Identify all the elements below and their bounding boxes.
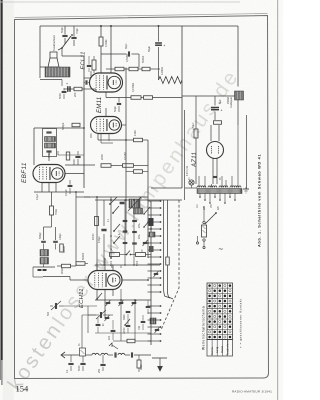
wire caps to coils (43, 244, 45, 250)
resistor x74 y125 (72, 123, 80, 127)
wire right rail x246.5 (246, 115, 248, 189)
variable capacitor C tune2 (99, 312, 101, 318)
wire ECH11 bottom pins (96, 290, 98, 301)
capacitor x70 y186 (68, 184, 73, 186)
resistor row y254 b (136, 253, 146, 257)
wire feldspule x238 (237, 26, 239, 87)
power transformer Tr1 core (197, 189, 242, 194)
capacitor 5000 x78 y157 (75, 155, 80, 157)
capacitor small x89 (87, 64, 91, 66)
switch contact finger y236 (148, 235, 161, 237)
wire x125 vertical osc (124, 200, 126, 265)
trimmer y243 c (143, 241, 147, 243)
wire B+ rail left drop (39, 26, 41, 78)
IF2 primary coil (40, 250, 49, 257)
voltage selector arm (205, 213, 216, 224)
capacitor below IF2 b (43, 269, 47, 271)
wire osc bottom h (95, 332, 151, 334)
capacitor y330 b (111, 329, 116, 331)
resistor right of IF2 coils (60, 244, 64, 252)
wire fuse up (203, 206, 205, 221)
capacitor x71 (68, 362, 73, 364)
wire y300 osc row (95, 299, 151, 301)
wire x135 vertical low (134, 300, 136, 341)
wire EM11 cathode down (90, 134, 92, 139)
resistor row y165 r2 (123, 164, 134, 168)
capacitor 50pF tonabnehmer (62, 34, 67, 36)
resistor x196 (194, 129, 198, 138)
dashed mechanical link (161, 200, 179, 330)
wire B+ rail drop x182 (181, 26, 183, 188)
wire antenna 3 (108, 354, 113, 356)
switch contacts ab (126, 254, 128, 256)
junction dots osc (110, 257, 112, 259)
trimmer on comb (154, 272, 158, 274)
wire tune2 (88, 314, 99, 316)
wire x88 vertical (87, 306, 89, 333)
capacitor left of ECL11 (85, 80, 87, 84)
wire EM11 bottom to grid line (97, 134, 99, 141)
wire y165 row right (111, 165, 123, 167)
wire x97 vertical osc (96, 197, 98, 271)
transformer top leads (198, 176, 200, 188)
wire cathode row (64, 88, 74, 90)
capacitor y231 a (123, 230, 128, 232)
switch contact finger y222 (148, 221, 161, 223)
resistor 300 right of IF2 (62, 264, 71, 268)
coil block on comb 2 (150, 318, 156, 324)
wire y341 (113, 340, 127, 342)
wire EBF11 anode right (65, 173, 84, 175)
capacitor y221 b (132, 219, 137, 221)
transformer tap leads (199, 194, 201, 198)
capacitor 470pF (101, 228, 106, 230)
wire IF1 to EBF11 (48, 151, 50, 161)
capacitor y326 (126, 324, 131, 326)
wire x134 vertical osc (133, 200, 135, 265)
table label area (207, 340, 233, 357)
switch contact finger y285 (148, 284, 161, 286)
dial lamp (189, 180, 194, 185)
resistor 1M EM11 grid (134, 138, 143, 142)
resistor 0.3M grid ECL11 (99, 37, 103, 46)
resistor x96 vertical (95, 217, 99, 226)
scan noise overlay (0, 0, 1, 1)
switch contact finger y201 (148, 200, 161, 202)
wire x104 vertical osc (103, 200, 105, 226)
wire x51.5 lower (51, 215, 53, 227)
variable coil arrow (128, 197, 141, 211)
page scan left gutter edge (1, 0, 3, 360)
wire x121 vertical low (120, 289, 122, 341)
wire x246 to AZ (224, 149, 247, 151)
speaker LS (48, 52, 59, 67)
resistor 200 cathode ECL11 (74, 87, 82, 91)
tube ECL11 (90, 73, 123, 92)
wire y128 link (58, 127, 84, 129)
IF1 secondary coil (45, 143, 56, 148)
capacitor 5000 ECL11 left (62, 90, 67, 92)
wire x111 vertical osc (110, 197, 112, 258)
wire x196 vertical (195, 96, 197, 129)
wire AZ plate top (210, 125, 212, 141)
tube AZ11 (207, 142, 224, 159)
ground arrow bottom (152, 357, 167, 359)
antenna arrow (61, 352, 65, 358)
table cell marks (208, 284, 211, 287)
figure frame border (15, 16, 269, 379)
wire y306 (64, 305, 97, 307)
earth arrow (109, 343, 112, 347)
wire B+ top rail (40, 25, 238, 27)
capacitor 30pF coupling (101, 53, 127, 55)
trimmer y318 (105, 316, 110, 318)
power transformer Tr1 windings (197, 186, 241, 188)
capacitor antenna shunt 2 (100, 363, 105, 365)
resistor x219 y122 (214, 121, 222, 125)
wire IF1 top (34, 127, 58, 129)
switch lever y240 (114, 236, 120, 243)
switch S5 Tonabnehmer (58, 34, 73, 50)
wire ECH11 top pins (96, 262, 98, 271)
capacitor y243 a (123, 241, 128, 243)
electrolytic 8uF (211, 107, 219, 109)
resistor 700 x55 (50, 206, 54, 215)
resistor on rail B (166, 257, 170, 265)
switch contact finger y250 (148, 249, 161, 251)
tube EM11 (91, 117, 122, 134)
wire EM11 anode (122, 124, 127, 126)
wire y171 (126, 171, 134, 173)
wire y165 row (65, 164, 95, 166)
switch contact finger y243 (148, 242, 161, 244)
resistor 40000 above ECL11 (92, 60, 96, 70)
small resistor y340 (127, 339, 135, 343)
wire IF2 bottom (43, 276, 70, 278)
junction dot rail (100, 25, 102, 27)
wire below output transformer (40, 79, 62, 81)
resistor row y97 r1 (131, 96, 141, 100)
capacitor y231 b (132, 230, 137, 232)
switch contact finger y229 (148, 228, 161, 230)
switch wiper blocks (149, 218, 154, 226)
resistor chain y67 r1 (115, 67, 124, 71)
capacitor antenna series 2 (130, 352, 132, 357)
trimmer y303 c (132, 301, 137, 303)
wire speaker to rail (40, 66, 47, 68)
capacitor y307 d (146, 305, 151, 307)
wire x76 down (75, 192, 77, 262)
antenna trimmer box (80, 348, 86, 356)
band switch spine (150, 201, 152, 298)
switch contact finger y271 (148, 270, 161, 272)
wire y192 bus (34, 191, 84, 193)
tube EBF11 (33, 165, 65, 183)
wire ECH11 left (70, 279, 88, 281)
wire y266 to ECH11 (57, 265, 62, 267)
capacitor below IF2 a (38, 269, 42, 271)
wire y265 bottom osc (95, 264, 160, 266)
wire coil to y267 (43, 264, 45, 267)
wire antenna 1 (86, 354, 93, 356)
wire antenna 2 (99, 354, 101, 356)
page scan top edge line (0, 1, 240, 4)
field winding zigzag (159, 77, 183, 84)
switch lever y322 (125, 319, 130, 325)
resistor y171 r3 (134, 170, 143, 174)
page scan right edge line (277, 0, 278, 400)
capacitor 100pF IF2 b (53, 240, 58, 242)
capacitor IF1 bottom (46, 150, 51, 152)
wire antenna 5 (134, 354, 151, 356)
switch lever y210 (113, 206, 119, 213)
wire y267 bottom IF2 (33, 266, 55, 268)
wire EM11 grid right (126, 139, 134, 141)
antenna coil 3 (118, 353, 125, 355)
capacitor 50pF row (117, 102, 121, 104)
wire x51.5 vertical (51, 192, 53, 206)
mains second terminal (196, 242, 198, 244)
electrolytic 50uF filter (155, 42, 162, 44)
wire lamp link (185, 187, 197, 189)
capacitor y221 a (123, 219, 128, 221)
band switch spine lower (150, 298, 152, 345)
fuse terminals (203, 221, 205, 223)
trimmer lower comb (155, 328, 159, 330)
capacitor antenna shunt 1 (80, 362, 85, 364)
wire EBF11 bottom drops (41, 183, 43, 193)
switch lever right col (144, 220, 150, 227)
wire y188 left to rails (151, 187, 182, 189)
wire EM11 top (105, 108, 107, 117)
resistor row y97 r2 (144, 96, 153, 100)
wire y155 links (57, 151, 59, 155)
wire EM11 drops (100, 134, 102, 144)
wire ECH11 anode right (122, 279, 148, 281)
IF1 primary coil (45, 137, 56, 142)
electrolytic 5uF cathode ECL11 (67, 86, 69, 92)
wire ECL11 to output transformer (83, 56, 85, 188)
trimmer y303 b (119, 301, 124, 303)
wire row y97 (105, 92, 107, 98)
wire y197 top osc (84, 196, 148, 198)
resistor chain y67 r2 (129, 67, 138, 71)
wire ECL11 anode to rail (100, 26, 102, 37)
wire resistor 40000 (93, 56, 95, 60)
wire AZ cathode down (212, 159, 214, 185)
resistor 50000 right of IF2 (76, 262, 85, 266)
capacitor y312 a (126, 310, 131, 312)
wire zigzag left drop (158, 58, 160, 80)
switch contact finger y215 (148, 214, 161, 216)
variable coil block (129, 199, 140, 208)
wire right rail B x167.5 (167, 200, 169, 257)
fuse (202, 225, 207, 237)
switch contact finger y208 (148, 207, 161, 209)
wire y96 link (182, 95, 238, 97)
junction dots osc grid (96, 196, 98, 198)
capacitor IF1 top (46, 131, 51, 133)
IF transformer Bf2 box (43, 129, 57, 157)
capacitor y243 b (132, 242, 137, 244)
switch lever y228 (114, 224, 120, 231)
wire x34 EBF11 grid (33, 128, 35, 165)
trimmer y303 a (106, 301, 111, 303)
wire y200 to rails (160, 199, 182, 201)
rail curves to bottom (164, 290, 171, 298)
wire y200 top osc (95, 199, 160, 201)
hatched coil 2 (134, 208, 143, 214)
capacitor y322 b (141, 320, 146, 322)
wire antenna 4 (125, 354, 130, 356)
switch contact finger y257 (148, 256, 161, 258)
wire right rail A x163.5 (163, 200, 165, 290)
comb lower fingers (148, 305, 161, 307)
capacitor 70pF tonabnehmer (71, 36, 76, 38)
coil block on comb (149, 232, 155, 237)
wire EBF11 long down x60 (59, 192, 61, 280)
switch lever y296 (97, 293, 102, 299)
chassis ground right of transformer (243, 188, 249, 190)
resistor x68 y156 vertical (66, 152, 70, 160)
switch lever right col 2 (144, 207, 150, 214)
switch contact finger y292 (148, 291, 161, 293)
capacitor y203 x122 (120, 201, 125, 203)
switch contact finger y264 (148, 263, 161, 265)
capacitor antenna series (114, 352, 116, 357)
wire x148 vertical (147, 140, 149, 258)
resistor chain y67 r3 (142, 67, 150, 71)
antenna coil 1 (92, 353, 99, 355)
wire x82 vertical to trimmer (81, 315, 83, 348)
wire fuse down (203, 241, 205, 246)
wire x126 long vertical (125, 68, 127, 233)
capacitor y323 (96, 323, 101, 325)
tube ECH11 (88, 271, 122, 290)
wire resistor chain y67 (106, 68, 115, 70)
switch contact table (207, 283, 233, 356)
capacitor 500pF IF2 a (41, 240, 46, 242)
IF2 secondary coil (40, 258, 49, 265)
feldspule coil (235, 91, 244, 100)
wire x43.5 vertical (43, 227, 45, 240)
variable capacitor C tune1 (54, 303, 56, 309)
capacitor y177 small (213, 175, 217, 177)
resistor row y254 a (110, 253, 120, 257)
output transformer Tr2 (45, 67, 70, 77)
wire y125 (58, 124, 72, 126)
wire x71 shunt (70, 355, 72, 362)
wire row y254 (109, 254, 111, 256)
switch lever y200 (110, 197, 117, 204)
antenna coil 2 (101, 353, 108, 355)
wire screen ECL11 (110, 26, 112, 73)
wire tone switch to grid (61, 48, 63, 56)
wire rail x184.5 (184, 110, 186, 200)
switch contact finger y278 (148, 277, 161, 279)
resistor row y165 r1 (101, 164, 111, 168)
resistor antenna shunt (137, 360, 141, 368)
wire x55.5 vertical (55, 227, 57, 240)
